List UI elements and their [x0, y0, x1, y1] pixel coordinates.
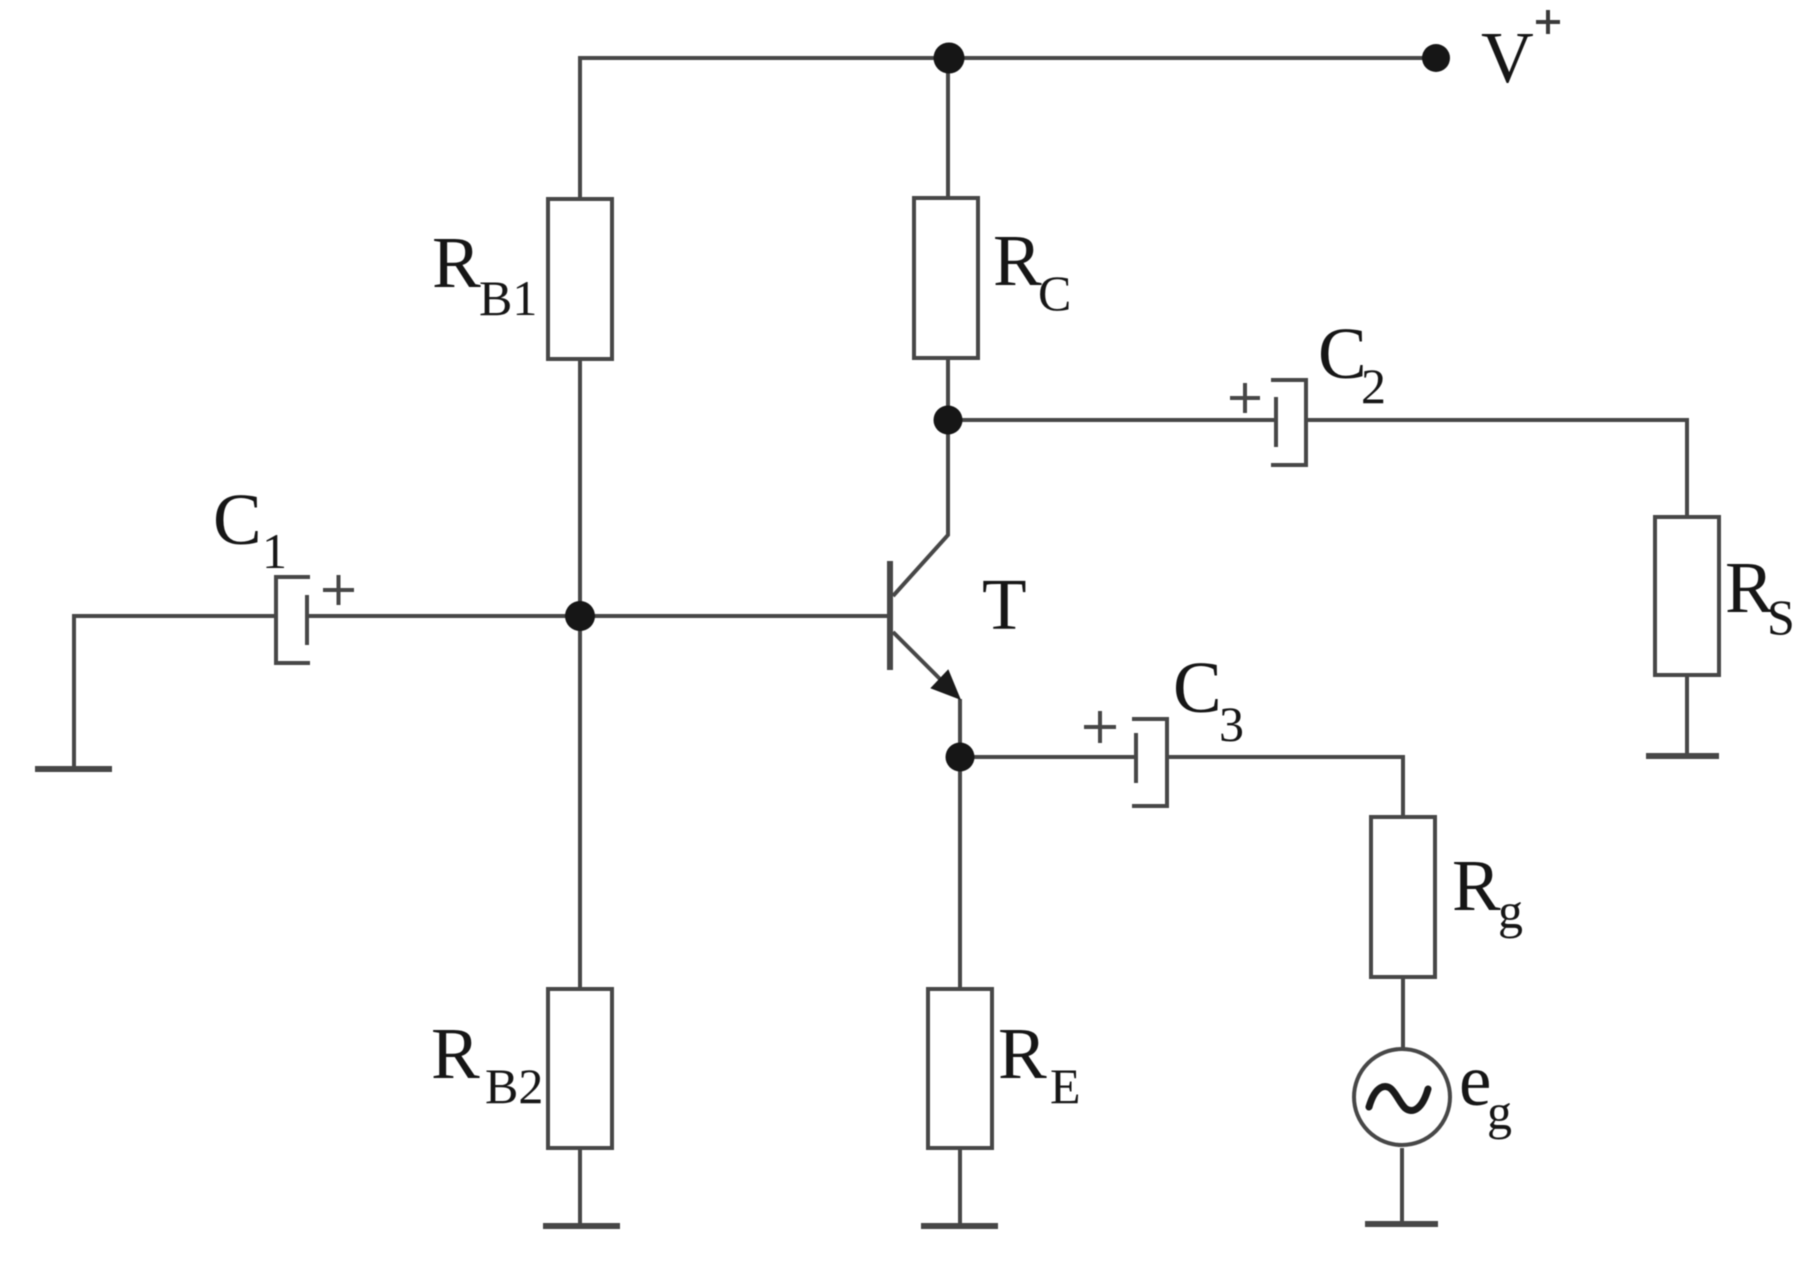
svg-text:R: R	[1452, 845, 1501, 926]
svg-text:R: R	[993, 220, 1042, 301]
svg-text:C: C	[1318, 313, 1367, 394]
svg-text:3: 3	[1219, 696, 1244, 752]
svg-text:1: 1	[262, 523, 287, 579]
svg-text:R: R	[431, 1013, 480, 1094]
svg-text:S: S	[1767, 589, 1795, 645]
svg-text:B1: B1	[479, 270, 537, 326]
svg-text:V: V	[1481, 17, 1534, 98]
svg-text:C: C	[213, 479, 262, 560]
svg-text:g: g	[1487, 1084, 1512, 1140]
svg-text:C: C	[1038, 265, 1071, 321]
svg-text:C: C	[1173, 647, 1222, 728]
svg-text:g: g	[1498, 883, 1523, 939]
svg-text:2: 2	[1361, 358, 1386, 414]
svg-text:B2: B2	[485, 1058, 543, 1114]
svg-text:R: R	[998, 1013, 1047, 1094]
svg-text:T: T	[982, 564, 1027, 645]
svg-text:R: R	[432, 222, 481, 303]
svg-text:E: E	[1050, 1058, 1081, 1114]
